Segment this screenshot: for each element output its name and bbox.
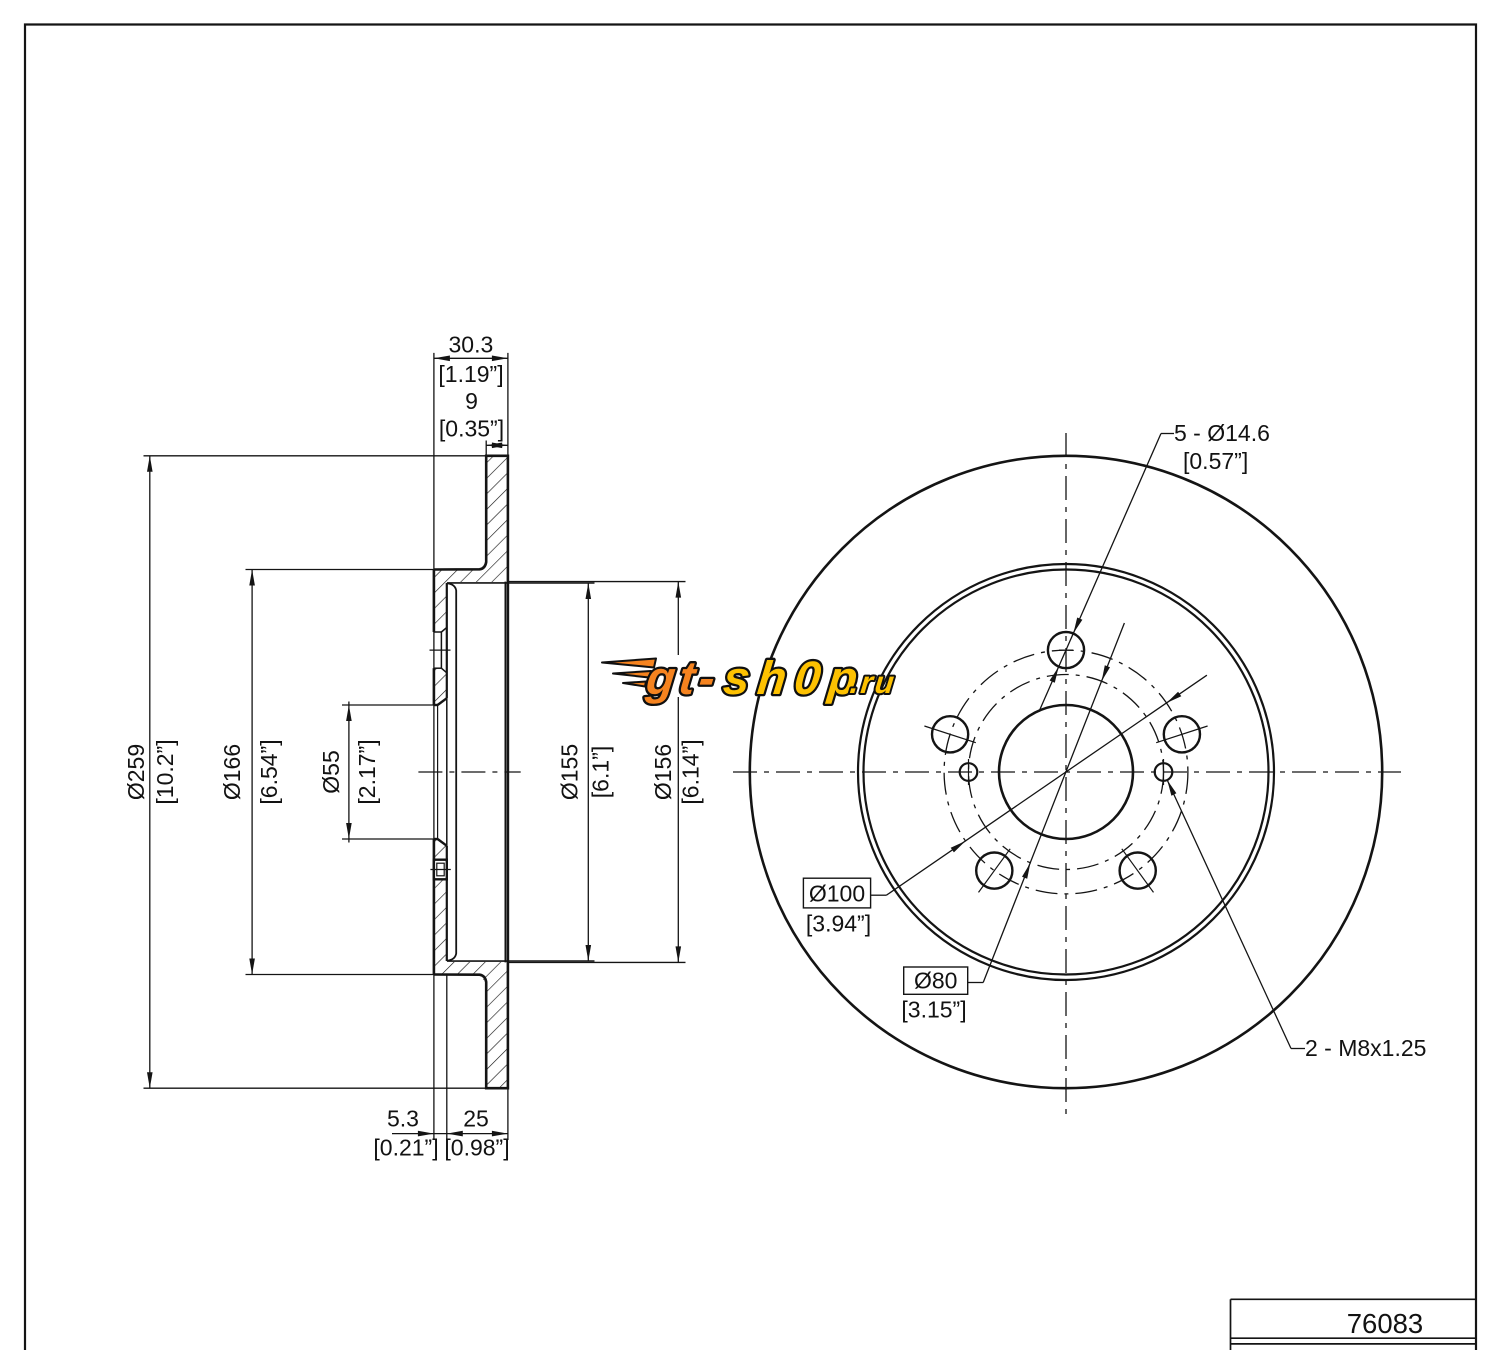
- svg-text:[3.94”]: [3.94”]: [806, 911, 871, 937]
- bolt circle Ø80: [969, 675, 1164, 870]
- Ø259 arrows: [147, 456, 153, 472]
- svg-text:[0.98”]: [0.98”]: [444, 1135, 509, 1161]
- Ø155 arrows: [586, 583, 592, 599]
- bore bottom edge: [434, 838, 438, 840]
- svg-text:Ø259: Ø259: [123, 744, 149, 800]
- svg-text:Ø156: Ø156: [650, 744, 676, 800]
- svg-text:[6.14”]: [6.14”]: [678, 739, 704, 804]
- logo text: [643, 651, 899, 704]
- svg-text:2 - M8x1.25: 2 - M8x1.25: [1305, 1035, 1426, 1061]
- interior visible edge x=456.2 with corner fillets: [448, 583, 457, 960]
- svg-text:[6.1”]: [6.1”]: [588, 746, 614, 798]
- flange left face upper (stud hole gap): [433, 570, 436, 633]
- svg-text:5 - Ø14.6: 5 - Ø14.6: [1174, 420, 1270, 446]
- svg-text:[10.2”]: [10.2”]: [152, 739, 178, 804]
- flange left face lower: [433, 839, 436, 975]
- dim line 30.3: [434, 357, 508, 359]
- extension Ø259 bottom: [144, 1087, 487, 1089]
- flange inner face upper: [446, 583, 448, 698]
- hatch upper region: [434, 456, 508, 632]
- svg-text:gt-: gt-: [643, 651, 722, 704]
- extension Ø166 bottom: [246, 974, 434, 976]
- leader 5-Ø14.6: [1161, 433, 1174, 435]
- bore top chamfer: [438, 698, 447, 705]
- M8 holes: [960, 763, 978, 781]
- svg-text:Ø80: Ø80: [914, 968, 957, 994]
- right view texts: [806, 420, 1427, 1061]
- svg-text:[0.57”]: [0.57”]: [1183, 448, 1248, 474]
- M8 center tick: [430, 869, 450, 871]
- interior visible edge x=505.4: [504, 582, 506, 963]
- center bore Ø55: [999, 705, 1133, 839]
- svg-text:.ru: .ru: [848, 665, 897, 700]
- bore top edge: [434, 704, 438, 706]
- title block: [1231, 1299, 1477, 1350]
- Ø156 arrows: [676, 582, 682, 598]
- extension Ø259 top: [144, 455, 487, 457]
- undercut circle: [858, 564, 1274, 980]
- label boxes: [803, 878, 870, 908]
- stud hole in section: [434, 627, 447, 672]
- dim line Ø156: [677, 582, 679, 655]
- part outline: drum outer top: [434, 456, 508, 1088]
- left view dimension texts: [123, 332, 704, 1161]
- dim line Ø166: [251, 570, 253, 975]
- svg-text:[3.15”]: [3.15”]: [901, 997, 966, 1023]
- 9 arrows: [486, 443, 502, 449]
- dim line 9: [486, 444, 508, 446]
- leader Ø80 dim line: [968, 982, 984, 984]
- svg-text:25: 25: [463, 1106, 489, 1132]
- dim line Ø259: [149, 456, 151, 1088]
- bore chamfer circle edge x=446.8: [446, 698, 448, 846]
- 30.3 arrows: [434, 356, 450, 362]
- dim line Ø155: [587, 583, 589, 961]
- flange inner face lower: [446, 846, 448, 961]
- speed lines: [602, 659, 656, 668]
- stud holes Ø14.6: [1048, 632, 1084, 668]
- extension Ø166 top: [246, 569, 434, 571]
- hatch upper flange below stud hole: [434, 668, 447, 705]
- stud hole ticks: [924, 650, 1207, 892]
- svg-text:9: 9: [465, 388, 478, 414]
- svg-text:Ø100: Ø100: [809, 881, 865, 907]
- drum bore lines Ø156 bottom (long): [447, 961, 686, 963]
- svg-text:[0.21”]: [0.21”]: [373, 1135, 438, 1161]
- right view arrowheads: [951, 618, 1182, 879]
- M8 thread hole section: [434, 860, 447, 880]
- Ø166 arrows: [249, 570, 255, 586]
- arrows left view: [147, 356, 681, 1137]
- svg-text:Ø55: Ø55: [318, 750, 344, 793]
- 5.3 arrow: [418, 1131, 434, 1137]
- bore chamfer start circle x=437.6: [437, 705, 439, 839]
- hatch lower flange above M8: [434, 839, 447, 860]
- svg-text:30.3: 30.3: [449, 332, 494, 358]
- svg-text:76083: 76083: [1347, 1308, 1423, 1339]
- Ø55 arrows: [346, 705, 352, 721]
- svg-text:[1.19”]: [1.19”]: [438, 361, 503, 387]
- svg-text:[6.54”]: [6.54”]: [256, 739, 282, 804]
- leader 2-M8x1.25: [1291, 1048, 1305, 1050]
- drum bore lines Ø155 bottom (short): [447, 960, 595, 962]
- 25 arrows: [447, 1131, 463, 1137]
- drum outer circle Ø166: [864, 570, 1269, 975]
- svg-text:[2.17”]: [2.17”]: [354, 739, 380, 804]
- dim line 5.3 / 25: [392, 1133, 508, 1135]
- bolt circle Ø100: [944, 650, 1188, 894]
- leader Ø100 dim line: [871, 894, 887, 896]
- stud hole center tick: [430, 649, 451, 651]
- outer disc circle Ø259: [750, 456, 1382, 1088]
- bore bottom chamfer: [438, 839, 447, 846]
- hatch lower region: [434, 879, 508, 1088]
- extension Ø55 top: [342, 704, 434, 706]
- svg-text:sh0p: sh0p: [721, 651, 868, 704]
- extension line flange inner face below part: [446, 975, 448, 1141]
- dim line Ø55: [348, 702, 350, 843]
- extension Ø55 bottom: [342, 838, 434, 840]
- svg-text:Ø155: Ø155: [557, 744, 583, 800]
- extension line hat face x=433.9: [433, 353, 435, 1140]
- drum bore lines Ø155 top (short): [447, 582, 595, 584]
- svg-text:[0.35”]: [0.35”]: [439, 416, 504, 442]
- svg-text:5.3: 5.3: [387, 1106, 419, 1132]
- svg-text:Ø166: Ø166: [219, 744, 245, 800]
- centerline vertical right view: [1065, 433, 1067, 1117]
- extension line disc left face (for 9 dim): [485, 441, 487, 456]
- drum bore lines Ø156 top (long): [447, 581, 686, 583]
- centerline horizontal right view: [733, 771, 1401, 773]
- centerline left view: [418, 771, 520, 773]
- extension line disc right face x=507.9: [507, 353, 509, 1140]
